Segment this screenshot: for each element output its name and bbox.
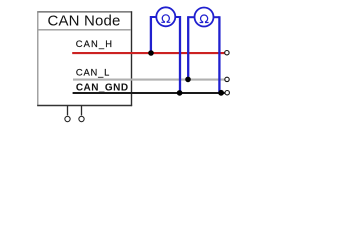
ohmmeter R2 omega glyph (200, 15, 209, 22)
header separator line (38, 29, 130, 31)
CAN Node box right edge (131, 11, 133, 106)
ohmmeter R2 body (circle) (195, 8, 214, 27)
wire CAN_GND (black) (73, 92, 225, 94)
bottom pin stub 1 (67, 106, 69, 116)
wire CAN_H (red) (72, 52, 224, 54)
R1 right lead stub (175, 16, 180, 18)
ohmmeter R1 body (circle) (156, 7, 175, 26)
svg-text:CAN_L: CAN_L (76, 66, 110, 77)
terminal CAN_GND (open circle) (225, 91, 229, 95)
R2 left lead stub (188, 16, 195, 18)
ohmmeter R1 omega glyph (161, 15, 170, 22)
R1 left lead stub (151, 16, 157, 18)
bottom pin terminal 2 (open circle) (79, 116, 84, 121)
bottom pin terminal 1 (open circle) (65, 116, 70, 121)
R1 left lead wire to CAN_H (150, 16, 152, 53)
wire CAN_L (gray) (73, 79, 224, 81)
svg-text:CAN Node: CAN Node (48, 13, 121, 30)
R2 right lead stub (213, 16, 219, 18)
CAN Node box top edge (37, 11, 132, 13)
CAN Node box left edge (37, 11, 39, 106)
CAN Node box bottom edge (37, 105, 132, 107)
R2 right lead wire to CAN_GND (218, 16, 220, 93)
terminal CAN_H (open circle) (225, 51, 229, 55)
R2 left lead wire to CAN_L (187, 16, 189, 79)
bottom pin stub 2 (81, 106, 83, 116)
svg-text:CAN_H: CAN_H (76, 38, 113, 49)
svg-text:CAN_GND: CAN_GND (76, 82, 129, 93)
junction node CAN_GND / R2 (218, 90, 224, 96)
junction node CAN_H / R1 (148, 50, 154, 56)
R1 right lead wire to CAN_GND (179, 16, 181, 93)
junction node CAN_L / R2 (185, 77, 191, 83)
terminal CAN_L (open circle) (225, 77, 229, 81)
junction node CAN_GND / R1 (177, 90, 183, 96)
